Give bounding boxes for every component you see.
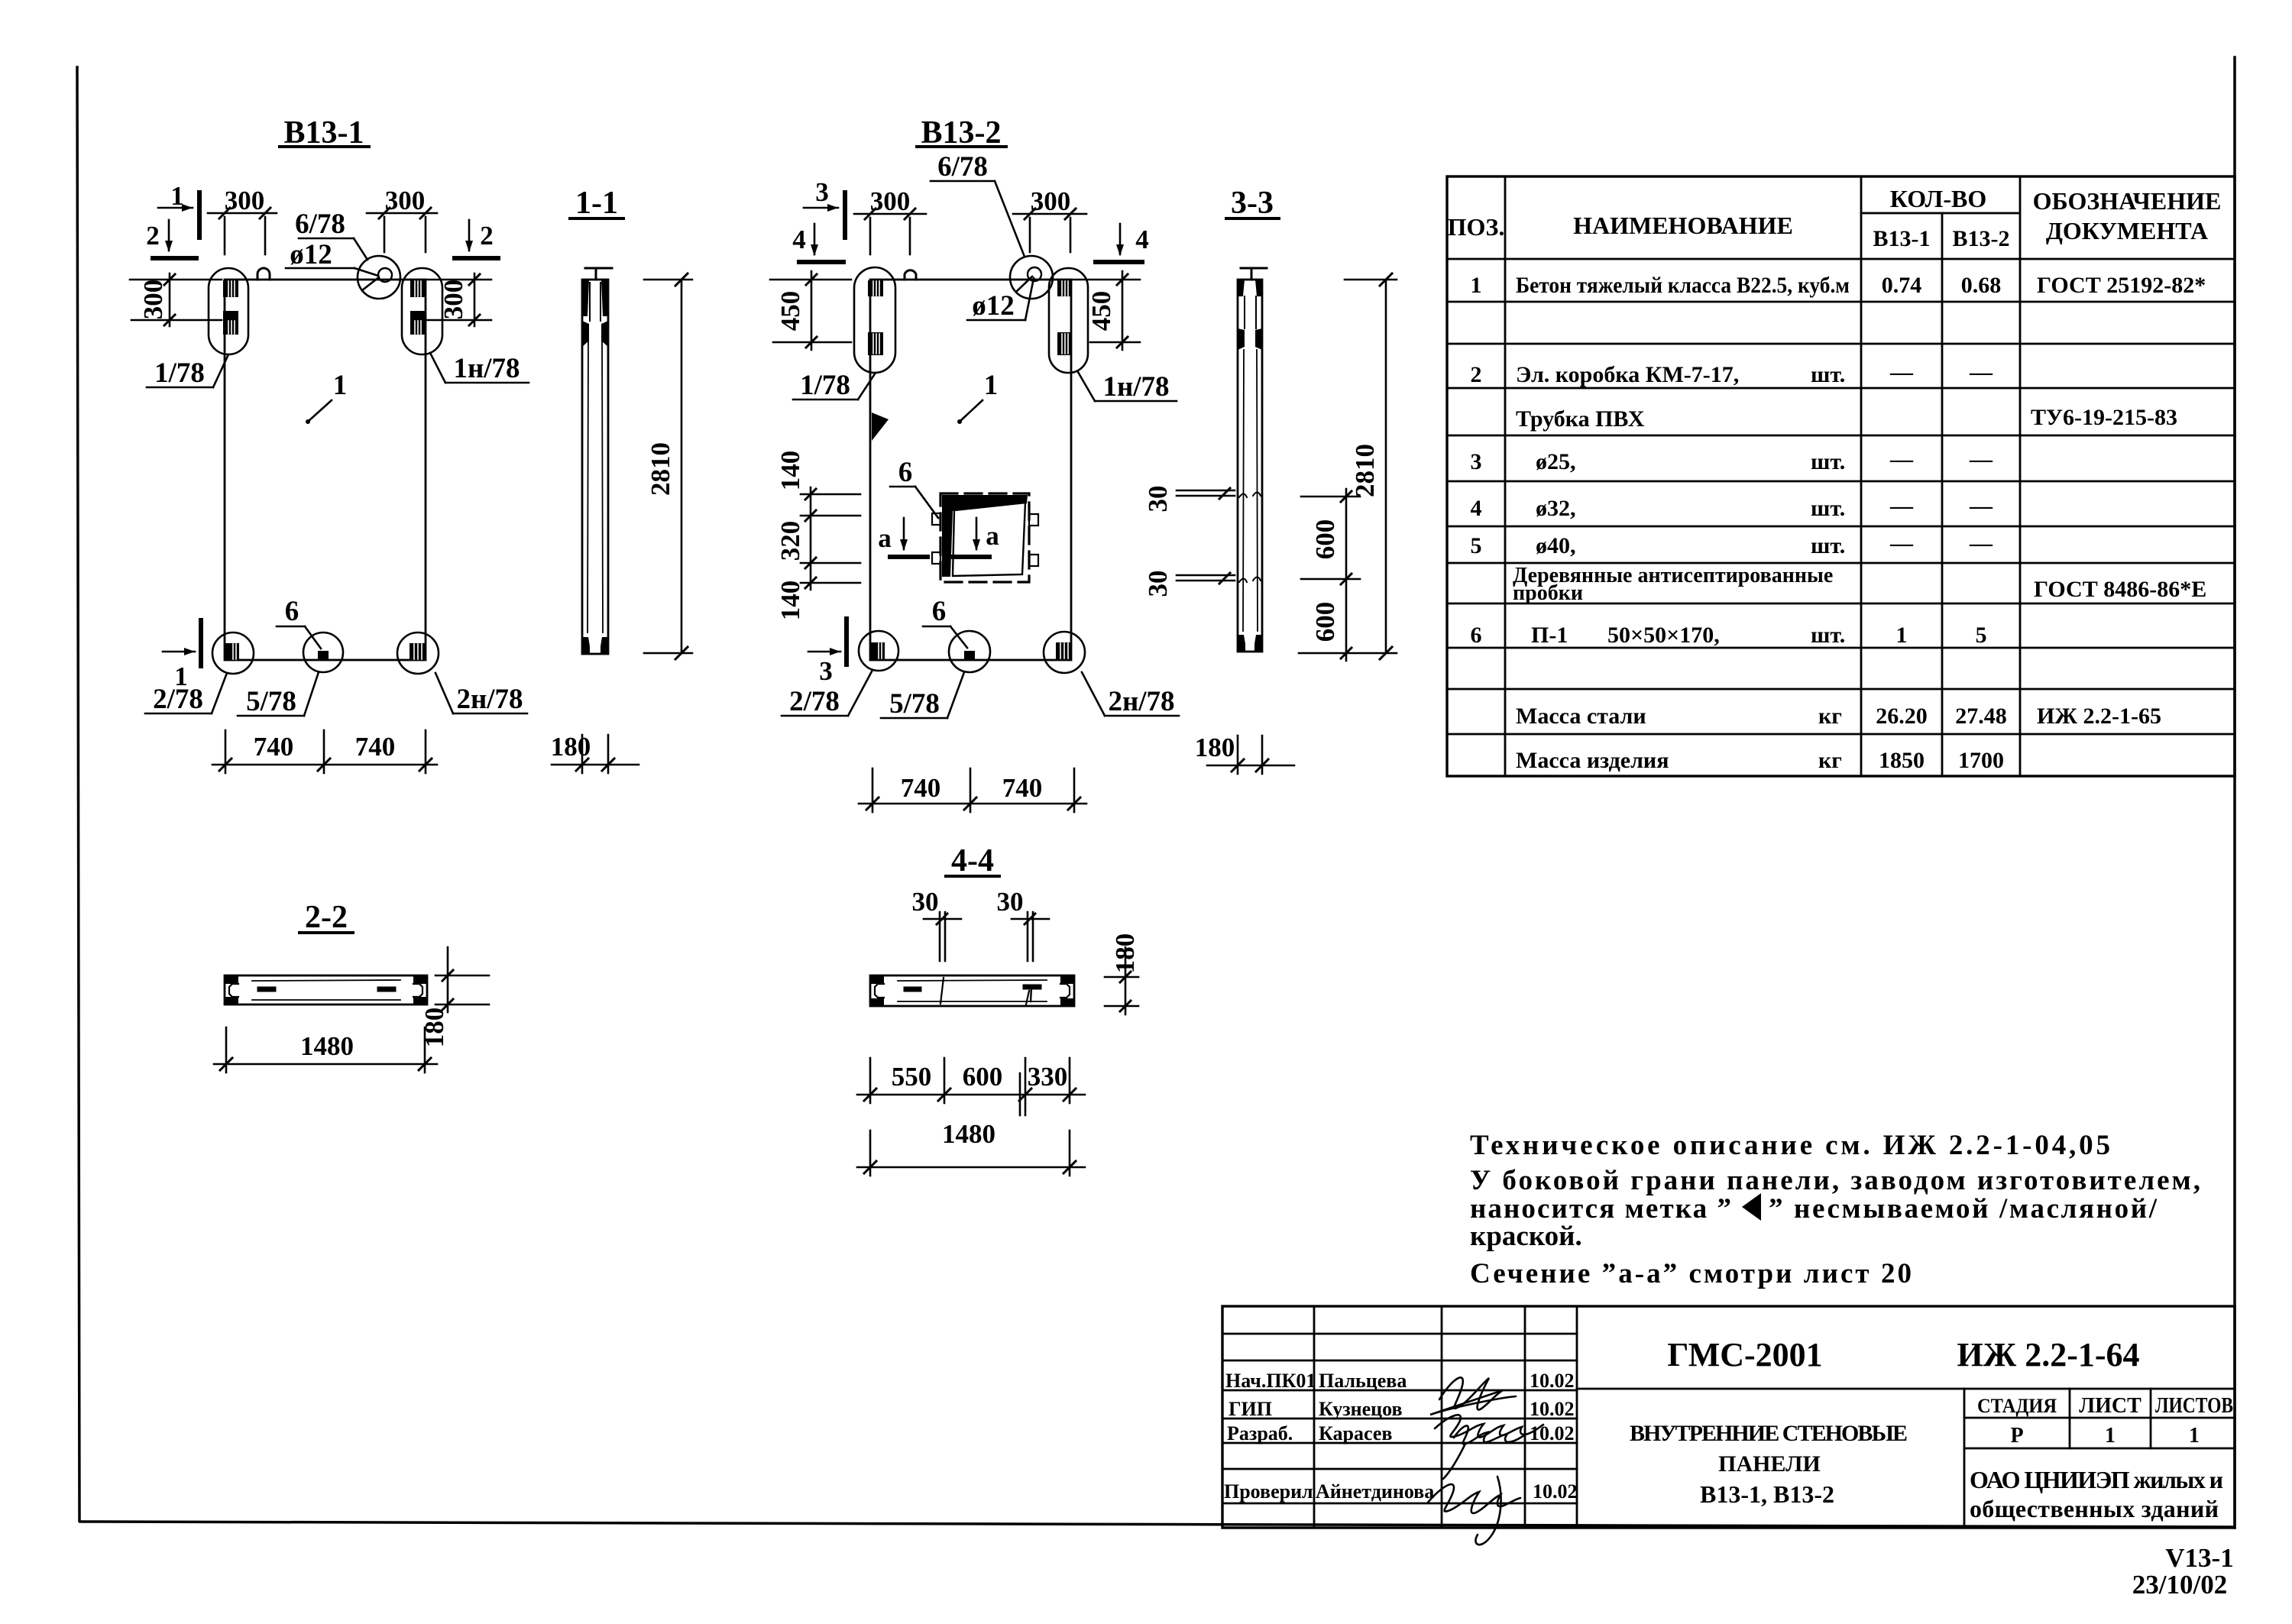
svg-text:Айнетдинова: Айнетдинова [1316,1480,1434,1503]
anchor oval 1/78 B13-2 [854,267,895,373]
svg-text:4: 4 [1135,225,1149,254]
svg-text:Эл. коробка КМ-7-17,: Эл. коробка КМ-7-17, [1516,362,1739,387]
lifting loop B13-2 [905,270,916,280]
svg-text:В13-2: В13-2 [1953,226,2010,251]
svg-text:6/78: 6/78 [295,209,345,240]
svg-text:ГМС-2001: ГМС-2001 [1667,1336,1822,1373]
table row line 6 [1447,480,2235,483]
stamp right header line [1577,1388,2235,1390]
bar 4-4 tube mark right [1025,985,1039,990]
column 1-1 top tee [585,267,612,270]
svg-text:ГИП: ГИП [1229,1398,1272,1420]
dim 1480 bottom 2-2 [214,1063,437,1066]
bar 4-4 break line left [940,978,944,1004]
stamp row line e [1222,1442,1577,1444]
section mark 3 top: cut line [843,192,847,238]
svg-text:НАИМЕНОВАНИЕ: НАИМЕНОВАНИЕ [1573,212,1793,239]
svg-text:1700: 1700 [1958,748,2004,773]
svg-text:ПОЗ.: ПОЗ. [1448,213,1505,241]
label 5/78 [246,686,296,717]
wood plug block bottom-middle B13-2 [964,651,975,660]
label o12 B13-1 [290,239,332,270]
column 1-1 outline [582,280,608,654]
section mark 1 bottom: cut line [199,620,203,666]
stamp row line f [1222,1468,1577,1470]
dim 1480 bottom 4-4 [857,1166,1085,1169]
stamp stadiya column line 1 [2069,1389,2071,1448]
B13-1 bottom anchor circle 2n/78 [397,632,439,674]
rebar block upper-left B13-1 [223,280,238,297]
svg-text:шт.: шт. [1811,449,1845,474]
svg-text:180: 180 [1195,733,1235,762]
detail circle 6/78 hole B13-1 [358,256,400,299]
svg-text:1н/78: 1н/78 [453,353,520,384]
svg-text:ДОКУМЕНТА: ДОКУМЕНТА [2046,217,2208,244]
svg-text:—: — [1969,531,1993,556]
label 1n/78 [453,353,520,384]
table row line 10 [1447,647,2235,649]
svg-text:5: 5 [1471,533,1482,558]
stamp row line g [1222,1503,1577,1505]
B13-2 bottom anchor circle 2/78 [859,631,898,671]
title 1-1 [575,186,618,221]
svg-text:ОАО ЦНИИЭП жилых и: ОАО ЦНИИЭП жилых и [1970,1466,2223,1493]
bar 4-4 break line right [1026,991,1029,1004]
dim chain 140/320/140 B13-2 [810,487,812,590]
svg-text:ø12: ø12 [972,290,1015,322]
svg-text:шт.: шт. [1811,496,1845,521]
svg-text:2: 2 [1471,362,1482,387]
table header split line [1861,212,2020,215]
svg-text:1: 1 [2189,1424,2200,1448]
bar 2-2 outline [225,975,427,1004]
label 2/78 B13-2 [789,686,840,717]
anchor oval 1/78 [209,268,248,354]
svg-text:ø32,: ø32, [1536,496,1576,521]
table row line 9 [1447,603,2235,605]
title underline B13-1 [280,145,369,148]
svg-text:30: 30 [1143,486,1173,513]
B13-1 bottom anchor circle 5/78 [303,632,343,672]
svg-text:Сечение ”а-а” смотри лист 20: Сечение ”а-а” смотри лист 20 [1470,1258,1912,1289]
B13-1 bottom anchor circle 2/78 [212,632,254,674]
signature aynetdinova [1427,1477,1520,1545]
column 3-3 notch fills [1238,328,1245,350]
svg-text:3-3: 3-3 [1231,186,1274,221]
svg-text:1480: 1480 [942,1119,995,1149]
section mark 2 top-right: arrow [468,220,471,251]
svg-text:—: — [1969,360,1993,385]
svg-text:общественных зданий: общественных зданий [1970,1495,2219,1522]
svg-text:6: 6 [932,596,947,627]
column 1-1 bottom corner fills [582,637,590,654]
svg-text:23/10/02: 23/10/02 [2132,1570,2227,1600]
svg-text:2/78: 2/78 [153,684,203,715]
stamp column line 2 [1441,1306,1443,1528]
dim 2810 section 1-1 [681,280,683,653]
svg-text:кг: кг [1818,704,1842,729]
table column line NAIM/KOL [1860,176,1863,776]
title underline 3-3 [1226,217,1279,220]
factory mark triangle B13-2 [872,412,889,441]
svg-text:1480: 1480 [300,1031,354,1061]
svg-text:ø12: ø12 [290,239,332,270]
label 5/78 B13-2 [889,688,940,720]
svg-text:740: 740 [254,732,294,762]
column 3-3 top corner fills [1238,280,1245,296]
dim 740+740 bottom B13-1 [212,764,437,766]
svg-text:740: 740 [1002,773,1043,803]
svg-text:6: 6 [898,457,913,488]
bar 4-4 inner line bottom [898,1001,1047,1002]
column 1-1 lower inner lines [588,336,588,632]
svg-text:10.02: 10.02 [1530,1398,1575,1420]
section mark 3 top: label [815,177,829,207]
svg-text:2: 2 [480,221,494,251]
svg-text:V13-1: V13-1 [2165,1543,2233,1573]
svg-text:—: — [1889,531,1914,556]
rebar block lower-left B13-2 [868,332,883,355]
anchor oval 1n/78 [402,268,442,354]
svg-text:Разраб.: Разраб. [1227,1422,1293,1444]
svg-text:Трубка ПВХ: Трубка ПВХ [1516,406,1645,432]
pos label 6 bottom B13-2 [932,596,947,627]
rebar block lower-right B13-2 [1057,332,1072,355]
svg-text:1: 1 [2105,1424,2116,1448]
page frame left border [77,67,79,1521]
svg-text:10.02: 10.02 [1530,1370,1575,1392]
svg-text:1: 1 [1896,623,1908,648]
section a-a left: cut line [890,555,927,559]
leader inside circle B13-2 [1016,277,1032,292]
electric box left tab upper [932,513,940,525]
svg-text:2н/78: 2н/78 [1108,686,1174,717]
electric box right tab lower [1029,555,1038,566]
stamp column line 1 [1313,1306,1316,1528]
section mark 4 top-right: cut line [1096,260,1142,264]
section mark 2 top-right: cut line [455,256,498,260]
bar 2-2 inner line top [252,980,400,981]
page frame right border [2233,57,2236,1528]
dim 450 right vertical B13-2 [1122,271,1124,350]
rebar block lower-right B13-1 [410,311,426,335]
rebar block upper-right B13-2 [1057,280,1072,296]
title B13-2 [921,115,1002,150]
svg-text:600: 600 [1310,519,1340,560]
svg-text:6: 6 [1471,623,1482,648]
svg-text:Пальцева: Пальцева [1319,1370,1407,1392]
rebar block bottom-left B13-2 [871,642,885,660]
svg-text:26.20: 26.20 [1876,704,1928,729]
stamp row line a [1222,1333,1577,1335]
section mark 3 bottom: cut line [844,619,849,665]
title B13-1 [284,115,364,150]
page frame bottom border [80,1522,2232,1527]
svg-text:пробки: пробки [1513,581,1583,605]
svg-text:Техническое описание см. ИЖ 2: Техническое описание см. ИЖ 2.2-1-04,05 [1470,1130,2110,1161]
dim 30 upper left 3-3 [1177,490,1235,492]
note line 3 triangle mark [1742,1193,1761,1221]
stamp column line 3 [1524,1306,1526,1528]
label 2/78 [153,684,203,715]
dim 300 top-right B13-1 [367,212,437,215]
svg-text:ИЖ 2.2-1-64: ИЖ 2.2-1-64 [1957,1336,2139,1373]
svg-text:450: 450 [1086,291,1116,332]
svg-text:3: 3 [815,177,829,207]
svg-text:—: — [1969,493,1993,519]
svg-text:краской.: краской. [1470,1221,1582,1252]
table outer border [1447,176,2235,776]
stamp column line 4 [1576,1306,1578,1528]
svg-text:КОЛ-ВО: КОЛ-ВО [1890,185,1986,212]
panel B13-2 outline [870,280,1071,660]
svg-text:140: 140 [775,581,805,621]
stamp stadiya column line 2 [2150,1389,2152,1448]
B13-2 bottom anchor circle 5/78 [949,631,990,672]
label 1/78 B13-2 [800,370,850,401]
svg-text:1: 1 [1471,273,1482,298]
table row line 8 [1447,562,2235,565]
stamp stadiya header underline [1964,1417,2235,1419]
electric box left tab lower [932,552,940,564]
column 1-1 notch fills [582,321,589,347]
table row line 11 [1447,688,2235,691]
svg-text:4: 4 [792,225,806,254]
column 1-1 inner neck lines [589,283,591,321]
svg-text:2: 2 [146,221,160,251]
svg-text:ГОСТ 8486-86*Е: ГОСТ 8486-86*Е [2034,577,2206,602]
dim 30 lower left 3-3 [1177,574,1235,577]
dim 300 right vertical B13-1 [474,273,476,326]
section mark 1 top: arrow [158,207,193,209]
detail circle 6/78 hole B13-2 [1010,256,1053,299]
dim 300 top-left B13-1 [208,212,277,215]
pos label 6 bottom B13-1 [285,596,299,627]
table row line 2 [1447,301,2235,303]
svg-text:4: 4 [1471,496,1482,521]
svg-text:ЛИСТОВ: ЛИСТОВ [2155,1394,2233,1418]
column 3-3 outline [1238,280,1262,652]
section mark 3 bottom: arrow [808,651,840,653]
svg-text:6: 6 [285,596,299,627]
svg-text:6/78: 6/78 [937,151,988,183]
dim 180 bottom 1-1 [552,764,639,766]
dim 180 right 2-2 [447,947,449,1012]
bar 2-2 plug dash left [260,987,274,992]
signature paltseva [1430,1377,1516,1415]
title 4-4 [951,843,994,878]
svg-text:” несмываемой /масляной/: ” несмываемой /масляной/ [1769,1193,2158,1224]
column 3-3 inner neck lines [1244,296,1245,328]
dim 740+740 bottom B13-2 [859,803,1086,805]
label 1n/78 B13-2 [1102,371,1169,403]
wood plug block bottom-middle B13-1 [318,651,329,660]
bar 4-4 inner line top [898,980,1047,981]
table row line 4 [1447,387,2235,390]
svg-text:1: 1 [984,370,999,401]
svg-text:П-1: П-1 [1531,623,1568,648]
dim 30 top-left 4-4 [912,887,939,917]
dim 2810 section 3-3 [1385,280,1387,653]
signature karasev [1443,1425,1526,1479]
dim 180 bottom 3-3 [1207,765,1294,767]
dim 180 right 4-4 [1125,947,1127,1014]
rebar block bottom-right B13-1 [410,643,426,660]
column 3-3 top tee [1241,267,1267,270]
svg-text:300: 300 [225,186,265,215]
table column line B13-1/B13-2 [1941,213,1944,776]
svg-text:740: 740 [355,732,396,762]
hole o12 B13-2 [1028,267,1041,281]
svg-text:Бетон тяжелый класса В22.5, ку: Бетон тяжелый класса В22.5, куб.м [1516,273,1850,298]
section mark 2 top-left: label [146,221,160,251]
pos label 1 B13-1 [333,370,348,401]
table row line 3 [1447,343,2235,345]
svg-text:наносится метка ”: наносится метка ” [1470,1193,1731,1224]
rebar block bottom-right B13-2 [1056,642,1071,660]
label o12 B13-2 [972,290,1015,322]
anchor oval 1n/78 B13-2 [1049,268,1088,373]
svg-text:5/78: 5/78 [246,686,296,717]
dim 300 top-right B13-2 [1013,213,1086,215]
pos label 1 B13-2 [984,370,999,401]
svg-text:Проверил: Проверил [1224,1480,1313,1503]
svg-text:27.48: 27.48 [1955,704,2007,729]
table column line KOL/OBOZN [2019,176,2022,776]
svg-text:шт.: шт. [1811,533,1845,558]
svg-text:450: 450 [775,291,805,332]
svg-text:У боковой грани панели, заводо: У боковой грани панели, заводом изготови… [1470,1165,2200,1196]
svg-text:180: 180 [551,732,591,762]
svg-text:В13-1, В13-2: В13-1, В13-2 [1700,1480,1834,1508]
svg-text:Нач.ПК01: Нач.ПК01 [1225,1370,1316,1392]
svg-text:а: а [986,521,999,551]
section a-a left: arrow [903,518,905,549]
stamp stadiya values underline [1964,1448,2235,1450]
svg-text:3: 3 [1471,449,1482,474]
bar 4-4 plug dash left [906,987,919,992]
svg-text:ЛИСТ: ЛИСТ [2079,1394,2141,1418]
svg-text:а: а [878,523,892,553]
bar 2-2 plug dash right [380,987,393,992]
column 3-3 bottom corner fills [1238,635,1245,652]
svg-text:740: 740 [901,773,941,803]
svg-text:ТУ6-19-215-83: ТУ6-19-215-83 [2031,405,2177,430]
column 1-1 top corner fills [582,280,589,316]
section a-a right: label [986,521,999,551]
svg-text:Масса изделия: Масса изделия [1516,748,1669,773]
svg-text:1н/78: 1н/78 [1102,371,1169,403]
svg-text:шт.: шт. [1811,362,1845,387]
svg-text:шт.: шт. [1811,623,1845,648]
svg-text:300: 300 [138,280,168,320]
svg-text:300: 300 [385,186,426,215]
svg-text:1/78: 1/78 [800,370,850,401]
svg-text:ОБОЗНАЧЕНИЕ: ОБОЗНАЧЕНИЕ [2033,187,2222,215]
svg-text:—: — [1889,447,1914,472]
svg-text:0.74: 0.74 [1882,273,1922,298]
title underline 4-4 [946,875,999,878]
panel B13-1 outline [225,280,426,660]
svg-text:Кузнецов: Кузнецов [1319,1398,1403,1420]
svg-text:ИЖ 2.2-1-65: ИЖ 2.2-1-65 [2037,704,2161,729]
label 2n/78 [456,684,523,715]
svg-text:10.02: 10.02 [1533,1480,1578,1503]
section mark 2 top-left: arrow [168,220,170,251]
dim 550/600/330 bottom 4-4 [857,1094,1085,1096]
rebar block upper-right B13-1 [410,280,426,297]
svg-text:300: 300 [870,186,911,216]
dim 30 top-right 4-4 [997,887,1024,917]
svg-text:—: — [1969,447,1993,472]
section mark 1 top: label [170,181,184,211]
section mark 4 top-left: arrow [814,224,816,254]
stamp row line c [1222,1389,1577,1392]
svg-text:30: 30 [1143,571,1173,597]
title underline B13-2 [917,145,1006,148]
svg-text:ВНУТРЕННИЕ СТЕНОВЫЕ: ВНУТРЕННИЕ СТЕНОВЫЕ [1630,1421,1908,1446]
svg-text:2/78: 2/78 [789,686,840,717]
section mark 4 top-left: label [792,225,806,254]
title 3-3 [1231,186,1274,221]
table row line 12 [1447,733,2235,736]
svg-text:2н/78: 2н/78 [456,684,523,715]
title underline 1-1 [570,217,623,220]
section a-a right: arrow [976,518,978,549]
svg-text:1850: 1850 [1879,748,1925,773]
svg-text:330: 330 [1028,1062,1068,1092]
svg-text:ГОСТ 25192-82*: ГОСТ 25192-82* [2037,273,2206,298]
svg-text:30: 30 [912,887,939,917]
svg-text:550: 550 [892,1062,932,1092]
column 3-3 lower inner lines [1243,350,1244,631]
svg-text:ø25,: ø25, [1536,449,1576,474]
hole o12 B13-1 [378,268,392,282]
svg-text:В13-1: В13-1 [1873,226,1931,251]
section mark 2 top-left: cut line [153,256,196,260]
lifting loop B13-1 [257,268,270,280]
svg-text:600: 600 [1310,602,1340,642]
electric box dashed outline B13-2 [940,493,1029,582]
stamp row line b [1222,1360,1577,1362]
rebar block upper-left B13-2 [868,280,883,296]
svg-text:1: 1 [333,370,348,401]
svg-text:180: 180 [1110,933,1140,974]
svg-text:Р: Р [2010,1424,2023,1448]
tube break mark upper 3-3 [1239,493,1261,498]
bar 2-2 inner line bottom [252,999,400,1001]
section mark 1 bottom: arrow [163,651,195,653]
B13-2 bottom anchor circle 2n/78 [1044,632,1085,673]
svg-text:5: 5 [1976,623,1987,648]
label 1/78 [154,357,205,389]
svg-text:1/78: 1/78 [154,357,205,389]
tube break mark lower 3-3 [1239,577,1261,583]
svg-text:3: 3 [819,656,833,686]
bar 2-2 corner fills [225,976,238,984]
svg-text:Масса стали: Масса стали [1516,704,1646,729]
table row line 5 [1447,435,2235,437]
svg-text:320: 320 [775,521,805,561]
table row line 7 [1447,526,2235,528]
section mark 1 top: cut line [197,192,202,238]
bar 4-4 corner fills [871,976,884,984]
title 2-2 [305,900,348,935]
svg-text:0.68: 0.68 [1961,273,2002,298]
label 6/78 top B13-2 [937,151,988,183]
electric box black wedge fill [942,495,1028,577]
leader inside circle B13-1 [362,277,379,290]
